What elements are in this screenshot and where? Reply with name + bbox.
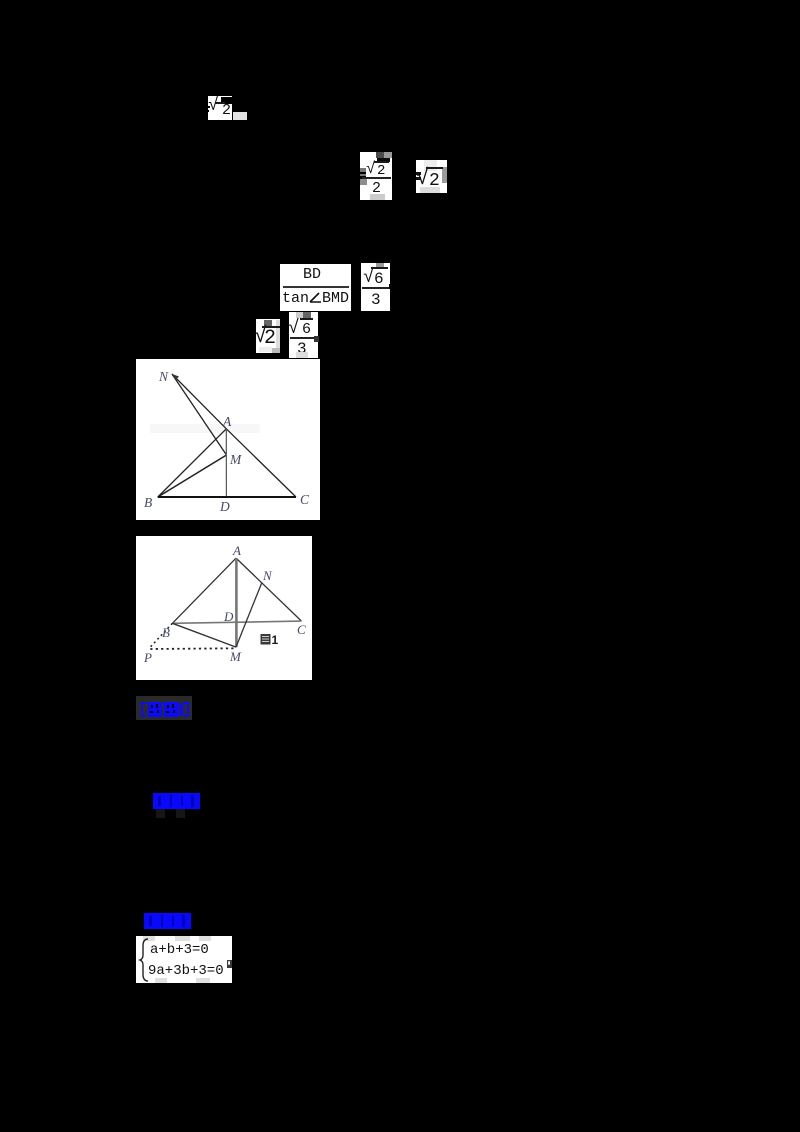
svg-text:1: 1 [272, 633, 279, 647]
svg-text:A: A [222, 414, 232, 429]
svg-text:N: N [262, 568, 273, 583]
svg-text:C: C [300, 492, 310, 507]
svg-text:C: C [297, 622, 306, 637]
svg-text:P: P [143, 650, 152, 665]
svg-text:N: N [158, 369, 169, 384]
svg-text:B: B [144, 495, 152, 510]
svg-text:D: D [223, 609, 234, 624]
svg-text:A: A [232, 543, 241, 558]
svg-text:M: M [229, 649, 242, 664]
svg-text:D: D [219, 499, 230, 514]
svg-text:B: B [162, 625, 170, 640]
svg-text:M: M [229, 452, 242, 467]
